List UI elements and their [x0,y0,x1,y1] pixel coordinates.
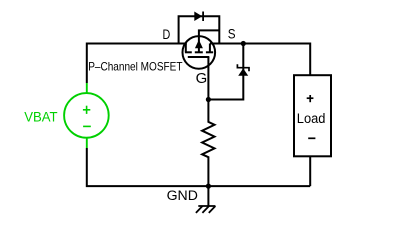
svg-text:Load: Load [297,111,326,127]
svg-text:VBAT: VBAT [24,110,58,125]
svg-text:GND: GND [167,188,198,204]
svg-text:G: G [196,71,208,87]
svg-text:P–Channel MOSFET: P–Channel MOSFET [88,60,182,74]
svg-text:D: D [163,26,171,42]
svg-text:S: S [228,25,236,41]
